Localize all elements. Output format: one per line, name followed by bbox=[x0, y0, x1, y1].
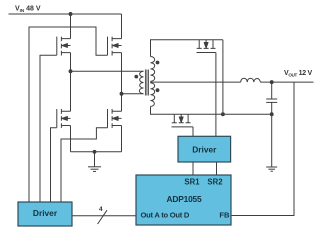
node right leg midpoint bbox=[120, 92, 123, 95]
wire VIN rail bbox=[9, 13, 122, 15]
transformer core bbox=[145, 70, 148, 96]
wire driver bus 4 bbox=[72, 215, 136, 217]
node output cap junction bbox=[270, 81, 273, 84]
wire Q2 source bbox=[70, 126, 72, 152]
driver box left bbox=[18, 202, 72, 226]
ground left bbox=[88, 167, 101, 172]
wire Q2 drain bbox=[70, 71, 72, 111]
wire right leg to primary bottom bbox=[122, 93, 144, 95]
transformer T1 secondary upper winding bbox=[151, 57, 155, 82]
svg-text:VOUT 12 V: VOUT 12 V bbox=[284, 70, 312, 78]
wire FB feedback bbox=[231, 82, 294, 215]
node left leg midpoint bbox=[69, 70, 72, 73]
wire Q4 gate route bbox=[61, 128, 108, 202]
svg-text:SR2: SR2 bbox=[207, 177, 223, 186]
wire Q3 source to right leg node bbox=[121, 53, 123, 94]
wire SR top gate bbox=[215, 53, 217, 137]
wire inductor to VOUT bbox=[260, 81, 313, 83]
transistor SR top bbox=[197, 40, 223, 53]
wire secondary bottom lead bbox=[151, 106, 175, 114]
node SR rail cap junction bbox=[270, 113, 273, 116]
wire SR2 bbox=[216, 162, 218, 175]
transistor SR bottom bbox=[172, 114, 272, 127]
wire secondary top lead bbox=[151, 40, 200, 57]
wire Q1 source to left leg node bbox=[70, 53, 72, 72]
wire Q1 gate route bbox=[40, 55, 57, 202]
ground right bbox=[266, 167, 277, 171]
svg-text:Driver: Driver bbox=[192, 145, 217, 155]
transistor Q4 bbox=[108, 109, 122, 128]
wire left leg to primary top bbox=[71, 70, 144, 72]
svg-text:VIN 48 V: VIN 48 V bbox=[15, 6, 41, 14]
capacitor C1 bbox=[266, 82, 277, 114]
inductor L1 bbox=[241, 78, 261, 82]
node secondary upper polarity dot bbox=[156, 61, 159, 64]
wire secondary center tap to inductor bbox=[150, 81, 241, 83]
driver box right bbox=[178, 136, 231, 162]
svg-text:Driver: Driver bbox=[33, 208, 58, 218]
wire Q3 drain bbox=[121, 14, 123, 39]
node bridge ground junction bbox=[93, 150, 96, 153]
svg-text:FB: FB bbox=[219, 211, 230, 220]
wire Q2 gate route bbox=[51, 128, 57, 202]
transformer T1 primary winding bbox=[139, 71, 143, 94]
node primary polarity dot bbox=[135, 75, 138, 78]
svg-text:SR1: SR1 bbox=[184, 177, 200, 186]
wire Q4 drain bbox=[121, 94, 123, 112]
node SR rail top FET source junction bbox=[221, 113, 224, 116]
transformer T1 secondary lower winding bbox=[151, 83, 155, 106]
svg-text:4: 4 bbox=[99, 206, 103, 213]
wire cap to ground right bbox=[271, 114, 273, 167]
wire bridge ground rail bbox=[71, 151, 122, 153]
svg-text:ADP1055: ADP1055 bbox=[167, 194, 202, 204]
wire ground stem left bbox=[94, 152, 96, 167]
node VIN junction bbox=[69, 13, 72, 16]
transistor Q3 bbox=[108, 37, 122, 56]
transistor Q1 bbox=[57, 37, 71, 56]
node secondary lower polarity dot bbox=[156, 89, 159, 92]
transistor Q2 bbox=[57, 109, 71, 128]
wire SR bottom gate bbox=[192, 127, 194, 136]
wire Q1 drain bbox=[70, 14, 72, 39]
IC U1 ADP1055 bbox=[136, 175, 231, 225]
wire SR top source bbox=[222, 40, 224, 114]
svg-text:Out A to Out D: Out A to Out D bbox=[141, 211, 190, 220]
wire SR1 bbox=[192, 162, 194, 175]
bus slash bbox=[98, 210, 107, 224]
wire Q3 gate route bbox=[29, 27, 108, 202]
wire Q4 source bbox=[121, 126, 123, 152]
